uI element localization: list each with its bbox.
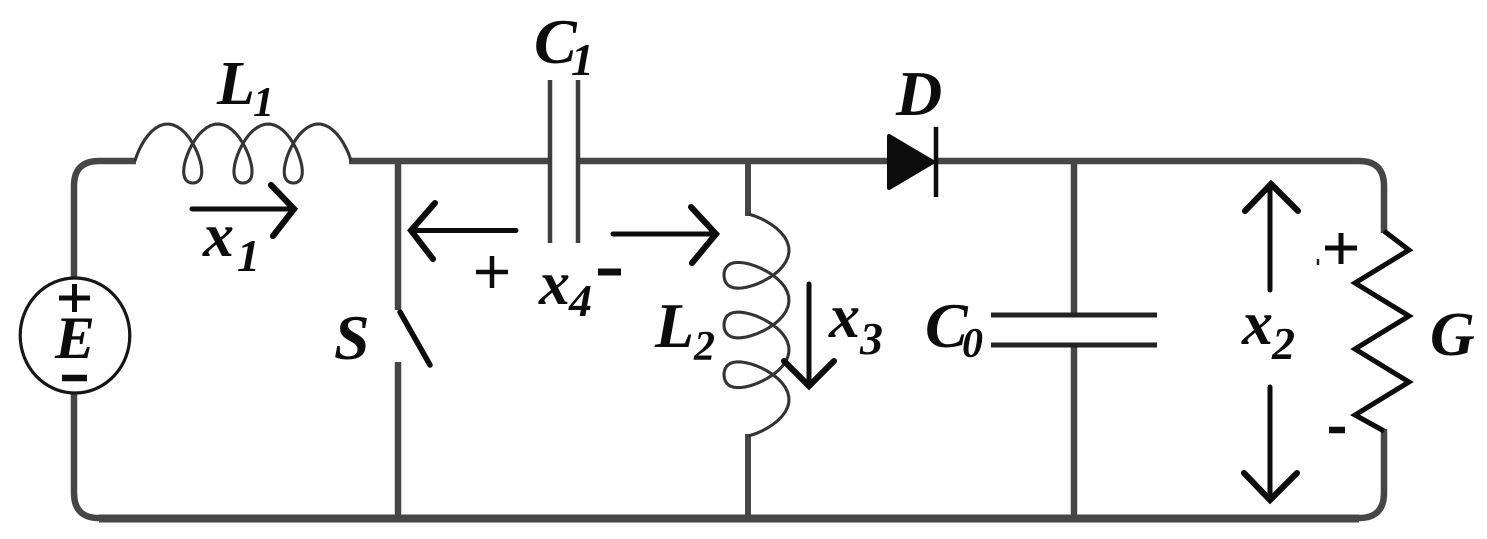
svg-text:4: 4 (568, 275, 592, 326)
label - of x4 (598, 269, 621, 276)
wire: L2 lower stub to bottom rail (745, 434, 751, 518)
diode D (889, 127, 936, 197)
svg-text:1: 1 (253, 80, 274, 126)
wire: bottom-right corner up to resistor G bottom (1340, 429, 1384, 518)
svg-text:L: L (654, 290, 694, 361)
svg-text:L: L (216, 50, 255, 118)
capacitor C1 right plate (576, 80, 581, 243)
stray tick mark left of + (1317, 259, 1320, 265)
svg-text:x: x (202, 202, 234, 270)
inductor L1 (135, 124, 351, 183)
svg-text:S: S (334, 302, 370, 373)
label L1 (216, 50, 274, 126)
svg-text:1: 1 (571, 34, 594, 85)
label x4 (538, 250, 592, 326)
svg-text:0: 0 (962, 321, 983, 367)
wire: switch S upper stub from top rail (395, 161, 402, 310)
svg-text:x: x (1241, 290, 1273, 358)
label G (1430, 301, 1475, 369)
label + of x4 (476, 256, 508, 288)
label - at load (1329, 427, 1345, 434)
svg-text:D: D (895, 58, 942, 129)
arrow x4 right (613, 207, 716, 263)
wire: L2 upper stub from top rail (745, 161, 751, 216)
svg-text:x: x (538, 250, 570, 318)
wire: C0 lower stub to bottom rail (1071, 345, 1078, 518)
arrow x2 down (1244, 387, 1297, 500)
wire: top rail from L1 to capacitor C1 left plate (349, 158, 550, 165)
label C1 (534, 6, 594, 85)
inductor L2 (724, 214, 789, 436)
wire: switch S lower stub to bottom rail (395, 362, 402, 518)
wire: left branch from source E up to top-left corner and to L1 start (74, 161, 136, 280)
resistor G zigzag (1355, 231, 1409, 431)
label + at load (1325, 233, 1357, 264)
svg-text:2: 2 (693, 324, 715, 370)
arrow x3 (784, 284, 834, 386)
wire: bottom rail (99, 515, 1359, 523)
capacitor C0 top plate (991, 313, 1157, 318)
arrow x2 up (1245, 184, 1298, 290)
label C0 (925, 290, 983, 367)
svg-text:1: 1 (237, 230, 260, 281)
wire: top rail from diode cathode to top-right corner down to resistor G top (935, 161, 1384, 233)
wire: top rail from capacitor C1 right plate to diode anode (578, 158, 888, 165)
label x1 (202, 202, 260, 281)
label L2 (654, 290, 715, 370)
svg-text:x: x (828, 283, 860, 351)
svg-text:E: E (54, 305, 95, 371)
svg-text:2: 2 (1271, 318, 1295, 369)
arrow x1 (192, 185, 294, 236)
switch S blade (400, 312, 430, 365)
capacitor C0 bottom plate (991, 343, 1157, 348)
wire: C0 upper stub from top rail (1071, 161, 1078, 315)
arrow x4 left (voltage reference) (411, 203, 516, 259)
label x3 (828, 283, 883, 364)
svg-text:3: 3 (859, 313, 883, 364)
wire: left branch from source E down to bottom-left corner (74, 392, 120, 518)
voltage source E (20, 278, 130, 393)
label D (895, 58, 942, 129)
capacitor C1 left plate (548, 80, 553, 243)
label S (334, 302, 370, 373)
svg-text:G: G (1430, 301, 1475, 369)
label x2 (1241, 290, 1295, 369)
